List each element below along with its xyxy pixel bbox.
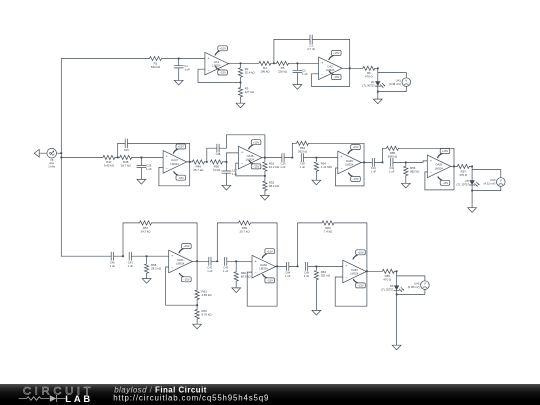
- svg-text:4.83 kΩ: 4.83 kΩ: [202, 293, 213, 297]
- svg-text:698 kΩ: 698 kΩ: [388, 155, 398, 159]
- svg-text:9.76 kΩ: 9.76 kΩ: [202, 312, 213, 316]
- svg-text:+15V: +15V: [442, 149, 449, 153]
- svg-text:1 uF: 1 uF: [232, 172, 238, 176]
- svg-text:9.43 kΩ: 9.43 kΩ: [104, 164, 115, 168]
- svg-text:−15V: −15V: [253, 165, 260, 169]
- svg-text:C28: C28: [216, 152, 221, 156]
- svg-text:OA53: OA53: [351, 268, 358, 272]
- svg-text:LM324: LM324: [345, 162, 354, 166]
- svg-text:+: +: [345, 264, 347, 268]
- svg-text:LM324: LM324: [170, 162, 179, 166]
- svg-text:18.7 kΩ: 18.7 kΩ: [121, 164, 132, 168]
- svg-text:1 uF: 1 uF: [371, 170, 377, 174]
- svg-text:LM324: LM324: [259, 267, 268, 271]
- svg-text:1 uF: 1 uF: [207, 269, 213, 273]
- svg-text:7.4 kΩ: 7.4 kΩ: [324, 229, 333, 233]
- svg-text:−15V: −15V: [352, 177, 359, 181]
- svg-text:530 kΩ: 530 kΩ: [151, 65, 161, 69]
- svg-text:351 kΩ: 351 kΩ: [321, 274, 331, 278]
- svg-text:LM324: LM324: [350, 271, 359, 275]
- svg-text:LTL 30757: LTL 30757: [381, 288, 394, 292]
- svg-text:C45: C45: [304, 271, 309, 275]
- svg-text:LM324: LM324: [246, 158, 255, 162]
- svg-text:C42: C42: [207, 266, 212, 270]
- svg-text:127 kΩ: 127 kΩ: [245, 90, 255, 94]
- svg-text:−15V: −15V: [357, 284, 364, 288]
- svg-text:+: +: [241, 150, 243, 154]
- svg-text:392 kΩ: 392 kΩ: [298, 150, 308, 154]
- svg-text:C43: C43: [223, 266, 228, 270]
- svg-text:1 uF: 1 uF: [223, 269, 229, 273]
- svg-text:74 kΩ: 74 kΩ: [213, 168, 221, 172]
- svg-text:+: +: [430, 159, 432, 163]
- svg-text:1 uF: 1 uF: [285, 274, 291, 278]
- svg-text:1 uF: 1 uF: [128, 264, 134, 268]
- svg-text:C31: C31: [371, 166, 376, 170]
- svg-text:LTL 30757: LTL 30757: [362, 84, 375, 88]
- svg-text:C30: C30: [300, 161, 305, 165]
- svg-text:1 uF: 1 uF: [304, 274, 310, 278]
- svg-text:OA48: OA48: [246, 154, 253, 158]
- svg-text:−: −: [340, 167, 342, 171]
- svg-text:V: V: [405, 79, 407, 83]
- svg-text:470 Ω: 470 Ω: [383, 277, 392, 281]
- svg-text:C29: C29: [281, 161, 286, 165]
- svg-text:−: −: [255, 271, 257, 275]
- svg-text:LM324: LM324: [176, 261, 185, 265]
- svg-text:28.3 kΩ: 28.3 kΩ: [151, 266, 162, 270]
- svg-text:+15V: +15V: [267, 249, 274, 253]
- svg-text:−15V: −15V: [219, 71, 226, 75]
- svg-text:985 kΩ: 985 kΩ: [410, 170, 420, 174]
- svg-text:D1: D1: [371, 80, 375, 84]
- svg-text:−15V: −15V: [333, 75, 340, 79]
- svg-text:−: −: [321, 73, 323, 77]
- svg-text:470 Ω: 470 Ω: [365, 74, 374, 78]
- svg-text:(0.38 mV): (0.38 mV): [389, 82, 401, 86]
- svg-text:OA50: OA50: [435, 163, 442, 167]
- svg-text:LM324: LM324: [326, 68, 335, 72]
- svg-text:1 uF: 1 uF: [300, 165, 306, 169]
- svg-text:−: −: [430, 171, 432, 175]
- svg-text:+: +: [321, 61, 323, 65]
- svg-text:D5: D5: [465, 179, 469, 183]
- svg-text:−15V: −15V: [183, 277, 190, 281]
- svg-text:+15V: +15V: [357, 250, 364, 254]
- svg-text:20.7 kΩ: 20.7 kΩ: [239, 229, 250, 233]
- svg-text:1 uF: 1 uF: [146, 167, 152, 171]
- svg-text:UA5: UA5: [490, 178, 496, 182]
- svg-text:−: −: [207, 68, 209, 72]
- svg-text:−: −: [241, 162, 243, 166]
- svg-text:52.4 kΩ: 52.4 kΩ: [245, 70, 256, 74]
- svg-text:226 kΩ: 226 kΩ: [278, 69, 288, 73]
- svg-text:LM324: LM324: [212, 64, 221, 68]
- svg-text:(4.32 mV): (4.32 mV): [484, 182, 496, 186]
- svg-text:1 uF: 1 uF: [184, 67, 190, 71]
- svg-text:+: +: [340, 155, 342, 159]
- svg-text:−: −: [345, 276, 347, 280]
- svg-text:+15V: +15V: [219, 46, 226, 50]
- svg-text:−15V: −15V: [267, 279, 274, 283]
- svg-text:80.6 kΩ: 80.6 kΩ: [241, 274, 252, 278]
- svg-text:1 uF: 1 uF: [280, 165, 286, 169]
- svg-text:−: −: [171, 266, 173, 270]
- svg-text:UA1: UA1: [396, 78, 402, 82]
- svg-text:−15V: −15V: [442, 181, 449, 185]
- svg-text:+: +: [171, 254, 173, 258]
- svg-text:+15V: +15V: [178, 145, 185, 149]
- svg-text:−15V: −15V: [178, 176, 185, 180]
- svg-text:196 kΩ: 196 kΩ: [260, 69, 270, 73]
- svg-text:(0.08 mV): (0.08 mV): [408, 285, 420, 289]
- svg-text:+: +: [207, 56, 209, 60]
- svg-text:C25: C25: [124, 148, 129, 152]
- svg-text:OA1: OA1: [214, 60, 220, 64]
- svg-text:+15V: +15V: [333, 51, 340, 55]
- svg-text:V: V: [424, 282, 426, 286]
- svg-text:+: +: [255, 259, 257, 263]
- svg-text:35.7 kΩ: 35.7 kΩ: [193, 168, 204, 172]
- svg-text:1 uF: 1 uF: [302, 72, 308, 76]
- svg-text:D6: D6: [390, 284, 394, 288]
- svg-text:48.2 kΩ: 48.2 kΩ: [269, 184, 280, 188]
- svg-text:OA52: OA52: [260, 263, 267, 267]
- svg-text:1 uF: 1 uF: [110, 264, 116, 268]
- svg-text:C44: C44: [285, 271, 290, 275]
- svg-text:470 Ω: 470 Ω: [459, 173, 468, 177]
- svg-text:OA47: OA47: [171, 158, 178, 162]
- svg-text:V: V: [500, 179, 502, 183]
- svg-text:−: −: [166, 167, 168, 171]
- svg-text:1.41 MΩ: 1.41 MΩ: [321, 165, 333, 169]
- svg-text:1 kHz: 1 kHz: [48, 164, 56, 168]
- svg-text:http://circuitlab.com/cq55h95h: http://circuitlab.com/cq55h95h4s5q9: [113, 394, 269, 403]
- svg-text:+15V: +15V: [253, 140, 260, 144]
- svg-text:OA51: OA51: [177, 258, 184, 262]
- svg-text:+15V: +15V: [183, 244, 190, 248]
- svg-text:C40: C40: [110, 260, 115, 264]
- svg-text:1 uF: 1 uF: [389, 170, 395, 174]
- svg-text:+: +: [166, 155, 168, 159]
- svg-text:10.2 kΩ: 10.2 kΩ: [269, 165, 280, 169]
- svg-text:34.3 kΩ: 34.3 kΩ: [140, 229, 151, 233]
- svg-text:OA49: OA49: [346, 159, 353, 163]
- svg-text:C27: C27: [232, 168, 237, 172]
- svg-text:C32: C32: [389, 166, 394, 170]
- svg-text:LTL 30757: LTL 30757: [456, 182, 469, 186]
- svg-text:+15V: +15V: [352, 145, 359, 149]
- svg-text:LAB: LAB: [65, 393, 93, 404]
- svg-text:OA2: OA2: [327, 65, 333, 69]
- svg-text:UA6: UA6: [414, 281, 420, 285]
- svg-text:4.7 nF: 4.7 nF: [307, 47, 315, 51]
- svg-text:LM324: LM324: [435, 166, 444, 170]
- svg-text:C41: C41: [128, 260, 133, 264]
